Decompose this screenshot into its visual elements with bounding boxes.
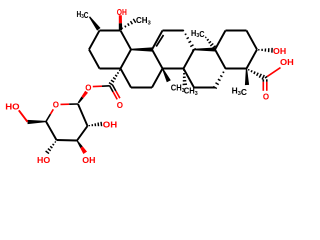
svg-text:OH: OH bbox=[273, 46, 286, 56]
C24 carboxyl: hashed wedge from C4 to carboxyl carbon bbox=[247, 69, 250, 70]
bond C6' to HO (red) bbox=[19, 110, 28, 122]
methyl C30: H3C wedge to ring E top-left bbox=[89, 16, 101, 30]
4'-OH hashed wedge bbox=[55, 141, 56, 144]
hashed ring bond C_TR to C_R (stereo) bbox=[183, 29, 184, 32]
methyl C23: bold wedge from C4 down to H3C bbox=[245, 69, 249, 86]
glucose ring bonds bbox=[46, 104, 88, 141]
C6' bold wedge from C5' bbox=[27, 120, 46, 124]
hashed ring bond B_R to B_BR (C5-H stereo) bbox=[225, 67, 226, 70]
bond Ccooh to OH (red) bbox=[265, 76, 267, 78]
svg-text:O: O bbox=[117, 101, 123, 110]
ring A bonds bbox=[215, 31, 257, 69]
bond C28 to ester O bbox=[102, 85, 110, 87]
methyl C27: bold wedge from C14 down-right bbox=[162, 68, 171, 82]
glucose anomeric wedge: ester O down to C1' bbox=[81, 91, 88, 98]
svg-text:OH: OH bbox=[82, 156, 95, 166]
svg-text:OH: OH bbox=[103, 120, 117, 129]
methyl C25: hashed wedge from C10 up-left to H3C bbox=[205, 36, 206, 39]
svg-text:O: O bbox=[263, 92, 269, 101]
ring B bonds bbox=[184, 50, 226, 88]
C=O double bond of C24 COOH bbox=[262, 79, 264, 82]
methyl C26: hashed wedge from C8 straight down bbox=[183, 69, 184, 71]
svg-text:HO: HO bbox=[5, 102, 20, 111]
bold wedge ring-B top edge bbox=[194, 48, 215, 52]
C28=O double bond bbox=[110, 86, 114, 92]
svg-text:OH: OH bbox=[117, 7, 127, 17]
ring D bonds bbox=[121, 50, 163, 88]
svg-text:O: O bbox=[85, 84, 91, 93]
2'-OH hashed wedge bbox=[88, 125, 90, 126]
19-OH red bold wedge bbox=[119, 15, 122, 23]
svg-text:HO: HO bbox=[37, 155, 51, 165]
methyl C29: hashed wedge from C19 to CH3 bbox=[121, 28, 124, 29]
3-OH hashed wedge from C3 to OH bbox=[258, 49, 260, 50]
C28 ester: hashed wedge from C17 down-left to carbonyl carbon bbox=[119, 69, 120, 72]
svg-text:OH: OH bbox=[280, 57, 294, 66]
bold wedge ring-D top edge (C18-H stereo) bbox=[131, 47, 152, 51]
svg-text:O: O bbox=[53, 101, 59, 110]
3'-OH bold wedge bbox=[77, 140, 83, 148]
ring E (top-left cyclohexane) bbox=[89, 31, 131, 69]
ring C bonds with C12=C13 double bond bbox=[152, 31, 194, 69]
